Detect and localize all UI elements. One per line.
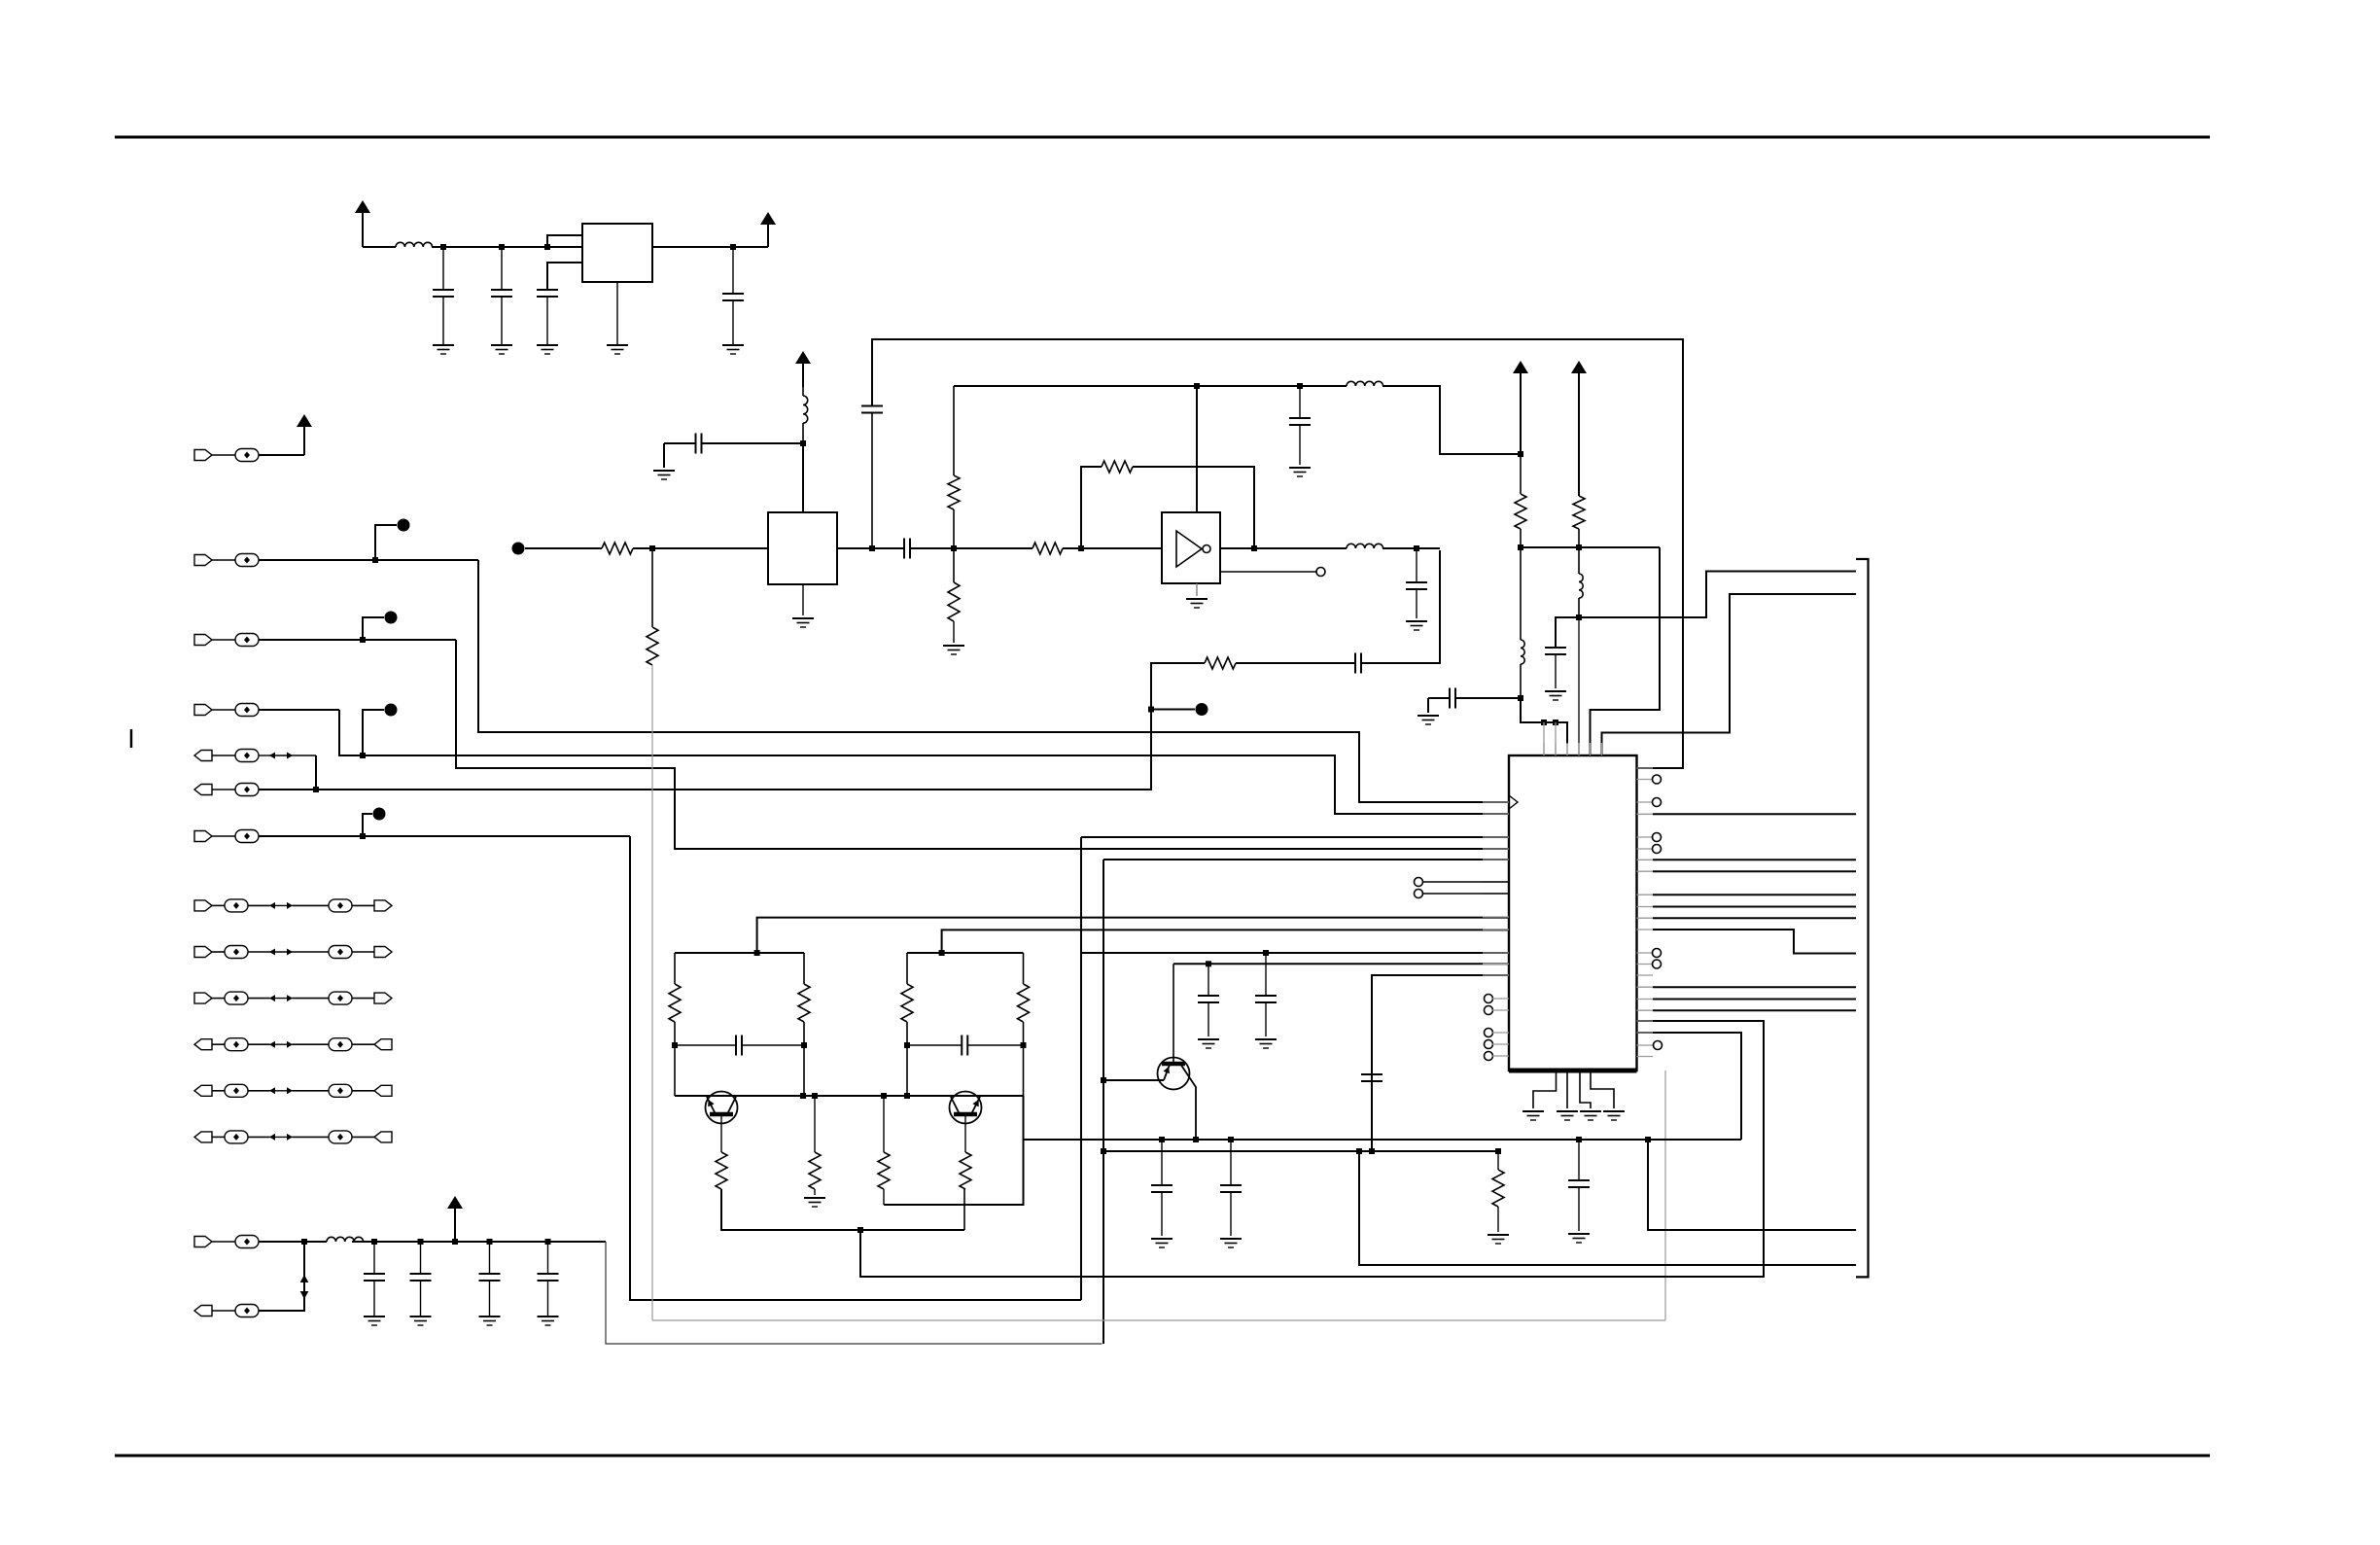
- wire C6 up and top loop to U4: [872, 339, 1683, 768]
- node junction row6 ball tap: [1148, 707, 1154, 713]
- wire row4: [259, 709, 339, 711]
- wire tap to node E: [363, 814, 372, 836]
- node junction chain A top: [1518, 451, 1523, 457]
- ferrite bead FB9: [212, 1310, 235, 1312]
- U4 bottom pin stubs and grounds: [1533, 1071, 1557, 1108]
- resistor R6 feedback: [1102, 461, 1133, 473]
- capacitor C18: [1161, 1140, 1163, 1185]
- capacitor C4: [732, 247, 734, 294]
- ground C10: [1417, 715, 1439, 717]
- connector J2 row2: [194, 555, 212, 566]
- node junction return: [301, 1239, 307, 1245]
- wire to R1: [525, 547, 602, 549]
- ferrite bead FB4: [212, 709, 235, 711]
- wire chain B to U4 pin t4: [1578, 617, 1580, 755]
- wire row7: [259, 835, 630, 837]
- wire row2 descend and clock run: [478, 560, 1509, 802]
- power arrow chain A: [1520, 373, 1522, 454]
- U4 right pin stubs: [1637, 767, 1654, 769]
- node junction Q3 collector on bus A: [1193, 1137, 1199, 1142]
- wire to U5: [432, 246, 582, 248]
- wire row7 long bottom run: [630, 836, 1081, 1300]
- node D ball: [1196, 703, 1208, 716]
- U2 top pin: [802, 443, 804, 512]
- bottom page rule: [115, 1455, 2210, 1457]
- connector J3 row3: [194, 635, 212, 646]
- U4 pin t6 to bracket 611: [1602, 594, 1857, 755]
- node junction C6: [869, 545, 875, 551]
- power arrow chain B: [1578, 373, 1580, 496]
- inductor L4: [1347, 381, 1383, 386]
- node C ball: [385, 704, 398, 717]
- ground C8: [1289, 467, 1311, 469]
- inductor L1: [396, 242, 433, 247]
- ground C14: [1198, 1038, 1219, 1040]
- wire chain A to chain B: [1521, 546, 1660, 548]
- inductor L5: [1347, 544, 1383, 548]
- bias return loop to U4 pin 1050: [860, 1021, 1764, 1277]
- pass-through row F connector pair: [194, 1132, 212, 1142]
- wire to VCC2 arrow: [767, 225, 769, 247]
- wire tap to node B: [363, 617, 384, 640]
- wire L5 to corner: [1382, 547, 1440, 549]
- wire chain B to bracket 587: [1579, 572, 1856, 618]
- wire R1 to U2: [633, 547, 768, 549]
- node junction R2: [649, 545, 655, 551]
- capacitor C8: [1299, 386, 1301, 418]
- junction rail R15: [812, 1093, 818, 1099]
- node junction C9: [1414, 545, 1419, 551]
- wire junction down: [651, 548, 653, 627]
- ferrite bead FB8: [212, 1241, 235, 1243]
- node junction C1: [440, 244, 446, 250]
- node F ball oscillator input: [512, 543, 525, 555]
- transistor Q2 PNP mirrored: [950, 1092, 982, 1124]
- U4 clock input triangle: [1509, 795, 1518, 809]
- ground C18: [1151, 1238, 1172, 1240]
- transistor Q3: [1158, 1058, 1190, 1090]
- node junction bus Q x1411: [1369, 1148, 1375, 1154]
- connector J7 row7: [194, 831, 212, 842]
- bus A to U4 pin 1062 loop: [1637, 1033, 1742, 1140]
- wire U5 output: [652, 246, 768, 248]
- capacitor C20: [1354, 653, 1356, 674]
- gray vertical to U4 bottom: [1664, 1071, 1666, 1320]
- wire row2 long: [259, 559, 478, 561]
- wire power rail: [259, 1241, 327, 1243]
- resistor R2: [647, 627, 658, 665]
- U5 pin1 stub jog: [547, 235, 582, 245]
- node junction chain B mid: [1576, 544, 1582, 550]
- capacitor C6 coupling top: [871, 413, 873, 549]
- ground C1: [433, 344, 454, 346]
- ferrite bead FB3: [212, 639, 235, 641]
- capacitor C5: [695, 434, 697, 454]
- ground C9: [1406, 620, 1427, 622]
- junction rail net1 right: [800, 1093, 806, 1099]
- U4 left pin stubs: [1483, 801, 1509, 803]
- corner 861 to U4 pin 860: [1081, 836, 1509, 838]
- pass-through row C connector pair: [194, 993, 212, 1003]
- ground C32: [479, 1316, 501, 1317]
- inductor L6 chain A: [1520, 547, 1522, 640]
- node junction C4: [730, 244, 736, 250]
- node junction row3 tap: [360, 637, 366, 643]
- connector J1 row1: [194, 450, 212, 461]
- power arrow VBATT: [454, 1209, 456, 1242]
- discriminator network 1 resistors R11 R12 capacitor C12: [675, 952, 804, 954]
- capacitor C2: [501, 247, 503, 290]
- resistor R10 feedback: [1205, 657, 1236, 669]
- junction C30: [371, 1239, 377, 1245]
- capacitor C14: [1207, 964, 1209, 996]
- capacitor C10: [1449, 688, 1451, 709]
- bus A line: [1024, 1139, 1742, 1141]
- node junction R19: [1495, 1148, 1501, 1154]
- discriminator network 2 resistors R13 R14 capacitor C13: [907, 952, 1024, 954]
- wire C10 left to ground: [1428, 697, 1450, 699]
- power arrow VCC2: [760, 212, 776, 225]
- Q2 emitter lead: [964, 1114, 966, 1152]
- wire return with pair arrows: [259, 1242, 304, 1311]
- junction U4 pin t1: [1541, 720, 1547, 725]
- junction rail R16: [881, 1093, 887, 1099]
- capacitor C9: [1416, 548, 1417, 582]
- node junction row2 tap: [372, 557, 378, 563]
- wire to C20: [1236, 662, 1355, 664]
- capacitor C19: [1230, 1140, 1232, 1185]
- connector J9 power return: [194, 1306, 212, 1317]
- capacitor C3: [537, 289, 558, 291]
- top page rule: [115, 136, 2210, 139]
- resistor R4 down: [953, 548, 955, 582]
- connector J5 row5 bidir: [194, 751, 212, 761]
- connector J8 power input: [194, 1237, 212, 1247]
- wire cap branch: [702, 442, 804, 444]
- wire feedback to output: [1133, 467, 1254, 548]
- wire U2 output: [837, 547, 904, 549]
- junction C32: [487, 1239, 493, 1245]
- regulator U5: [582, 224, 652, 282]
- U4 top pin stubs: [1543, 722, 1545, 755]
- U4 test point circles left mid: [1415, 878, 1423, 887]
- inductor L2: [327, 1237, 364, 1242]
- capacitor C16 inline: [1361, 1073, 1382, 1075]
- wire R17 bottom run: [721, 1189, 964, 1230]
- ground C4: [722, 344, 744, 346]
- node A ball: [398, 519, 410, 532]
- U4 bottom edge thick: [1509, 1069, 1637, 1073]
- wire to bracket 1265: [1648, 1140, 1856, 1230]
- U4 right bus wires to bracket: [1653, 813, 1856, 815]
- wire chain A to U4 top pins: [1521, 698, 1567, 744]
- node junction Q3 base trunk: [1101, 1077, 1106, 1083]
- IC U4: [1509, 755, 1637, 1071]
- power arrow osc: [802, 364, 804, 387]
- ferrite bead FB1: [212, 454, 235, 456]
- ferrite bead FB5: [212, 755, 235, 756]
- ground C5: [653, 470, 675, 472]
- thin divider line down: [651, 665, 653, 1320]
- corner 884 to U4 pin 884: [1103, 859, 1509, 860]
- node junction U2 top: [800, 440, 806, 446]
- node junction row4: [360, 753, 366, 758]
- U3 ground pin: [1196, 583, 1198, 596]
- resistor R17 Q1 emitter: [716, 1152, 727, 1189]
- wire 563 chain to U4 pin t5: [1591, 547, 1661, 755]
- rail corner down to 1239: [884, 1096, 1024, 1205]
- vertical x1135 trunk: [1102, 860, 1104, 1151]
- capacitor C15: [1265, 953, 1267, 996]
- node junction C10: [1518, 695, 1523, 701]
- pass-through row B connector pair: [194, 947, 212, 958]
- node junction C8: [1297, 383, 1303, 389]
- junction C33: [545, 1239, 551, 1245]
- network1 tap to U4 pin 943: [757, 918, 1509, 953]
- node junction C19: [1228, 1137, 1234, 1142]
- node junction bracket 1265 tap: [1645, 1137, 1651, 1142]
- node E ball: [373, 808, 386, 821]
- bus Q line: [1103, 1150, 1498, 1152]
- ground C3: [537, 344, 558, 346]
- node junction feedback: [1078, 545, 1084, 551]
- Q3 base lead: [1103, 1079, 1164, 1081]
- node junction C14: [1206, 961, 1211, 966]
- junction C31: [418, 1239, 424, 1245]
- ground U5: [607, 344, 628, 346]
- emitter line to U4 pin 991: [1173, 963, 1509, 965]
- node junction bias bottom: [857, 1227, 863, 1233]
- wire node C tap: [363, 710, 384, 755]
- test point circle TP1: [1316, 568, 1325, 577]
- wire row5 join row6: [315, 755, 317, 790]
- node junction output: [1251, 545, 1257, 551]
- ground R19: [1487, 1234, 1509, 1236]
- wire row3 descend run: [456, 640, 1081, 849]
- wire ball tap: [1151, 709, 1195, 711]
- wire power rail main: [352, 1241, 606, 1243]
- ferrite bead FB7: [212, 835, 235, 837]
- ground C19: [1220, 1238, 1242, 1240]
- node junction row5-6: [313, 787, 319, 792]
- junction arrow: [452, 1239, 458, 1245]
- junction rail net2 left: [904, 1093, 910, 1099]
- node junction C15: [1263, 950, 1269, 956]
- wire regulator input: [363, 246, 396, 248]
- junction U4 pin t2: [1553, 720, 1558, 725]
- ground R4: [943, 645, 964, 647]
- capacitor C32 power filter: [489, 1242, 491, 1274]
- wire row6 long run: [259, 663, 1205, 790]
- ground U2: [792, 617, 814, 619]
- resistor R8 chain B: [1573, 496, 1585, 529]
- U4 top pin stubs: [1543, 743, 1545, 755]
- inductor L7 chain B: [1578, 547, 1580, 574]
- wire row1 to power arrow: [303, 427, 305, 455]
- capacitor C30 power filter: [373, 1242, 375, 1274]
- line 980 to U4 pin 978: [1081, 952, 1509, 954]
- gray bottom run: [652, 1319, 1665, 1321]
- connector J4 row4: [194, 705, 212, 716]
- resistor R19 to ground: [1497, 1151, 1499, 1170]
- node junction bus Q start: [1101, 1148, 1106, 1154]
- ground C11: [1545, 690, 1566, 692]
- node junction U3 top pin: [1194, 383, 1200, 389]
- pass-through row A connector pair: [194, 900, 212, 911]
- ground C15: [1255, 1038, 1277, 1040]
- ground R15: [804, 1197, 825, 1199]
- capacitor C31 power filter: [420, 1242, 422, 1274]
- vertical x1112 trunk: [1080, 837, 1082, 1300]
- wire R18 to bias bottom: [963, 1189, 965, 1230]
- ground C30: [364, 1316, 385, 1317]
- wire C20 to osc output corner: [1361, 550, 1440, 663]
- wire L4 corner to chain A: [1382, 386, 1521, 454]
- inverter U3: [1162, 512, 1220, 583]
- pass-through row E connector pair: [194, 1085, 212, 1096]
- wire bus Q to bracket 1301: [1359, 1151, 1856, 1265]
- U2 ground pin: [802, 584, 804, 615]
- bus bracket: [1856, 559, 1869, 1277]
- pass-through row D connector pair: [194, 1039, 212, 1050]
- ground C17: [1568, 1233, 1590, 1235]
- Q1 emitter lead down: [720, 1114, 722, 1152]
- ground C31: [410, 1316, 432, 1317]
- inverter triangle: [1176, 531, 1202, 567]
- ferrite bead FB6: [212, 789, 235, 790]
- U4 pin 956 jog to bracket 980: [1653, 930, 1856, 954]
- resistor R16 rail down: [883, 1096, 885, 1152]
- resistor R5 series: [1032, 543, 1063, 554]
- wire C7 to R3: [910, 547, 1032, 549]
- power arrow row1: [297, 414, 312, 427]
- wire U3 output: [1220, 547, 1347, 549]
- transistor Q1 PNP: [706, 1092, 738, 1124]
- trunk x1135 lower extension: [1102, 1151, 1104, 1344]
- node B ball: [385, 612, 398, 624]
- feedback loop up: [1081, 467, 1102, 548]
- node junction C18: [1159, 1137, 1165, 1142]
- resistor R1: [602, 543, 633, 554]
- Q3 collector lead: [1180, 1064, 1196, 1140]
- U5 pin3 stub to C3: [547, 263, 582, 290]
- node junction chain A mid: [1518, 544, 1523, 550]
- pin 1003 wire and C16 trunk: [1372, 975, 1509, 1151]
- ground C33: [538, 1316, 559, 1317]
- U3 second output to test point: [1220, 571, 1316, 573]
- resistor R3 up: [953, 509, 955, 548]
- node junction C2: [499, 244, 505, 250]
- inductor L3 vertical: [802, 423, 804, 443]
- capacitor C33 power filter: [547, 1242, 549, 1274]
- wire C5 to ground corner: [664, 442, 696, 444]
- wire row3: [259, 639, 456, 641]
- emitter rail under networks: [675, 1095, 1024, 1097]
- bidirectional arrow row5: [259, 755, 269, 756]
- node junction bus Q 1301 tap: [1356, 1148, 1362, 1154]
- U3 top pin wire: [1196, 386, 1198, 512]
- resistor R18 Q2 emitter: [960, 1152, 971, 1189]
- capacitor C17: [1578, 1140, 1580, 1180]
- node junction R3R4: [951, 545, 957, 551]
- ground U3: [1186, 598, 1207, 600]
- capacitor C11 branch: [1556, 617, 1579, 648]
- connector J6 row6: [194, 785, 212, 795]
- wire tap to node A: [375, 525, 397, 560]
- capacitor C1: [442, 247, 444, 290]
- node junction C17: [1576, 1137, 1582, 1142]
- wire bias top run: [954, 385, 1347, 387]
- node junction chain B low: [1576, 614, 1582, 620]
- network2 tap to U4 pin 955: [942, 930, 1509, 953]
- wire R5 to U3: [1063, 547, 1162, 549]
- node junction row7 tap: [360, 833, 366, 839]
- wire row4 descend run to U4: [339, 710, 1509, 814]
- inverter bubble: [1203, 545, 1210, 553]
- Q3 emitter lead up: [1172, 964, 1174, 1064]
- node junction U5 pin jog: [544, 244, 550, 250]
- ferrite bead FB2: [212, 559, 235, 561]
- U4 pin 873 wire: [1081, 848, 1509, 850]
- resistor R15 rail to ground: [814, 1096, 816, 1152]
- resistor R7 chain A: [1520, 454, 1522, 494]
- U5 ground pin: [616, 282, 618, 345]
- U4 right circles: [1653, 775, 1662, 784]
- U4 right circle 1075: [1654, 1041, 1662, 1050]
- oscillator module U2: [768, 512, 837, 584]
- capacitor C7 series: [903, 539, 905, 559]
- wire power rail to right run: [606, 1242, 1102, 1344]
- power arrow VCC1: [355, 200, 370, 213]
- ground C2: [491, 344, 512, 346]
- U4 config circles left low: [1485, 995, 1493, 1003]
- left margin tick: [130, 729, 133, 748]
